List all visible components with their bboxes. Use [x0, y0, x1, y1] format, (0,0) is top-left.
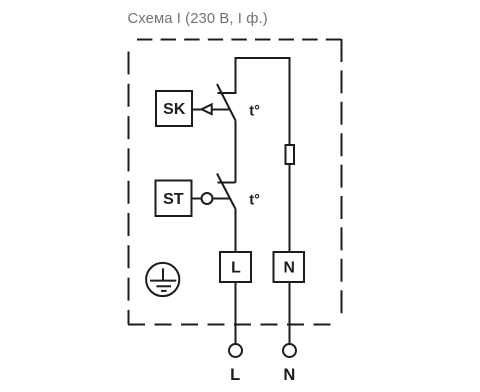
wire: between upper switch and lower contact seat [235, 121, 237, 183]
svg-text:N: N [283, 260, 294, 277]
terminal circle N [283, 344, 296, 357]
thermal switch t° lower: contact seat [218, 182, 236, 184]
ground: bar 1 [150, 280, 176, 282]
terminal circle L [229, 344, 242, 357]
wire: lower switch to L box [235, 209, 237, 252]
svg-text:t°: t° [249, 192, 260, 208]
svg-text:L: L [230, 366, 240, 384]
svg-text:L: L [231, 260, 241, 277]
wire: top bus from upper contact seat up and across to right branch down to fuse [218, 58, 290, 145]
wire: arrow to upper blade [212, 109, 231, 111]
box ST [156, 181, 192, 217]
ground: stem [162, 268, 164, 280]
thermal switch t° upper: blade [217, 84, 236, 121]
svg-text:Схема I (230 В, I ф.): Схема I (230 В, I ф.) [128, 11, 268, 27]
terminal box L [220, 252, 251, 282]
svg-text:N: N [283, 366, 295, 384]
thermal fuse FT (small rectangle on N branch) [286, 145, 295, 164]
dashed enclosure right edge [341, 39, 343, 315]
wire: SK to arrow [192, 109, 202, 111]
box SK [156, 91, 192, 126]
svg-text:SK: SK [163, 101, 186, 118]
wire: N box to terminal N [289, 282, 291, 344]
dashed enclosure left edge [128, 52, 130, 325]
wire: ST to circle [192, 198, 202, 200]
ground: protective earth circle [146, 263, 179, 296]
ground: bar 2 [156, 285, 171, 287]
svg-text:ST: ST [163, 191, 184, 208]
thermal switch t° lower: blade [217, 174, 236, 210]
arrow head (actuator link triangle) [202, 104, 212, 114]
wire: L box to terminal L [235, 282, 237, 344]
dashed enclosure top edge [137, 39, 342, 41]
ground: bar 3 [161, 290, 167, 292]
dashed enclosure bottom edge [128, 324, 334, 326]
svg-text:t°: t° [249, 103, 260, 119]
actuator circle [202, 193, 213, 204]
terminal box N [274, 252, 305, 282]
wire: fuse to N box [289, 164, 291, 252]
wire: circle to lower blade [213, 198, 230, 200]
